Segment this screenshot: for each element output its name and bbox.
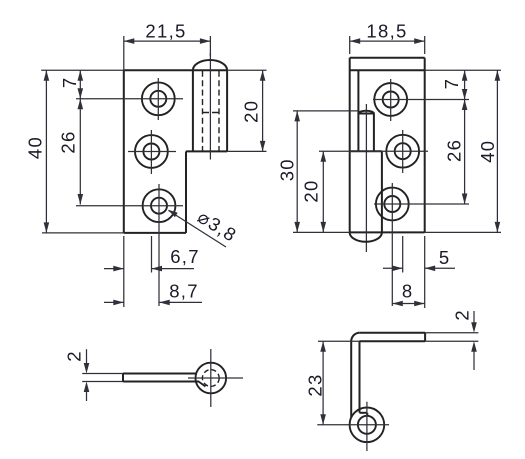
dim 5 extension line xyxy=(402,236,404,273)
svg-text:8: 8 xyxy=(402,281,412,302)
dim 8 extension line xyxy=(424,236,426,308)
part 2 side view curl step xyxy=(360,412,368,414)
dim 18,5 extension lines xyxy=(349,36,351,54)
dim 21,5 extension lines xyxy=(123,36,125,70)
right leaf pin slot edge xyxy=(357,70,359,151)
hole B1 centerlines xyxy=(373,99,469,101)
dim 40 right line and arrows xyxy=(496,70,498,232)
hole A3 bottom-left plate xyxy=(143,189,176,222)
hole B2 middle-right plate xyxy=(386,135,419,168)
svg-text:6,7: 6,7 xyxy=(170,246,200,267)
hole A2 centerlines xyxy=(128,151,176,153)
dim 40 left extensions xyxy=(41,69,124,71)
dim 40 right extension bottom xyxy=(425,231,501,233)
dim 30 20 bottom extension xyxy=(293,231,350,233)
svg-text:2: 2 xyxy=(452,310,473,320)
hole B3 centerlines xyxy=(374,203,469,205)
left barrel centerline xyxy=(209,53,211,160)
svg-text:23: 23 xyxy=(305,373,326,396)
dim 2 left line and outside arrows xyxy=(86,349,88,363)
dim 8 line and arrows xyxy=(392,303,424,305)
hinge pin (part 2) xyxy=(358,113,374,115)
hole A3 centerlines xyxy=(76,205,183,207)
hole B1 top-right plate xyxy=(374,83,407,116)
hole B3 bottom-right plate xyxy=(376,188,409,221)
dim 8,7 extension line xyxy=(123,236,125,307)
dim 6,7 extension line xyxy=(151,236,153,273)
dim 40 left line and arrows xyxy=(45,70,47,233)
dim 2 right line and outside arrows xyxy=(473,311,475,323)
dim 5 line and outside arrows xyxy=(383,267,403,269)
part 2 side view pin hole xyxy=(358,416,376,434)
part 1 side view hidden pin hole xyxy=(202,370,219,387)
dim 20 left-figure extensions xyxy=(227,69,266,71)
right knuckle xyxy=(381,151,383,232)
part 2 side view centerlines xyxy=(366,402,368,451)
dim 30 extension line xyxy=(293,110,358,112)
hole B2 centerlines xyxy=(319,150,428,152)
svg-text:7: 7 xyxy=(441,79,462,89)
dim 20 right-figure line and arrows xyxy=(322,151,324,232)
svg-text:18,5: 18,5 xyxy=(366,21,407,42)
dim 18,5 line and arrows xyxy=(350,40,425,42)
dim 30 line and arrows xyxy=(296,111,298,232)
svg-text:26: 26 xyxy=(443,139,464,162)
svg-text:26: 26 xyxy=(58,130,79,153)
svg-text:5: 5 xyxy=(439,247,449,268)
part 2 side view L-bracket arm xyxy=(360,332,425,334)
svg-text:7: 7 xyxy=(59,78,80,88)
pin centerline xyxy=(365,104,367,252)
part 1 side view curl end xyxy=(199,382,206,387)
part 1 side view leaf strip xyxy=(123,373,197,375)
dim 2 left extensions xyxy=(82,373,123,375)
dim 23 line and arrows xyxy=(322,341,324,425)
hole A1 centerlines xyxy=(76,98,183,100)
svg-text:30: 30 xyxy=(276,158,297,181)
svg-text:8,7: 8,7 xyxy=(169,281,199,302)
part 2 side view scroll outer circle xyxy=(350,408,385,443)
svg-text:21,5: 21,5 xyxy=(145,21,186,42)
dim 26 left line and arrows xyxy=(79,99,81,205)
part 2 side view bracket legs xyxy=(350,341,352,418)
svg-text:40: 40 xyxy=(477,140,498,163)
svg-text:20: 20 xyxy=(301,179,322,202)
dim 7 right line and arrows xyxy=(464,70,466,99)
part 1 side view barrel circle xyxy=(196,363,227,394)
left leaf outline (part 1 front view) xyxy=(123,70,125,233)
hole A2 middle-left plate xyxy=(135,135,168,168)
svg-text:40: 40 xyxy=(24,136,45,159)
dim 7 left line and arrows xyxy=(79,70,81,99)
hole A1 top-left plate xyxy=(142,82,175,115)
dim 20 left-figure line and arrows xyxy=(262,70,264,151)
svg-text:20: 20 xyxy=(241,100,262,123)
dim 8,7 line and outside arrows xyxy=(104,301,124,303)
dim 2 right extensions xyxy=(425,332,478,334)
part 1 side view centerlines xyxy=(188,377,243,379)
dim 6,7 line and outside arrows xyxy=(104,268,124,270)
svg-text:2: 2 xyxy=(64,351,85,361)
left barrel (hinge sleeve) xyxy=(192,70,194,151)
dim 26 right line and arrows xyxy=(464,100,466,205)
dim 21,5 line and arrows xyxy=(124,40,211,42)
right leaf outline (part 2 front view) xyxy=(349,58,351,233)
hole diameter leader line xyxy=(169,211,227,248)
dim 23 extension line xyxy=(318,340,360,342)
dim 7 right extensions xyxy=(425,69,501,71)
left barrel hidden pin hole (dashed) xyxy=(202,71,204,151)
